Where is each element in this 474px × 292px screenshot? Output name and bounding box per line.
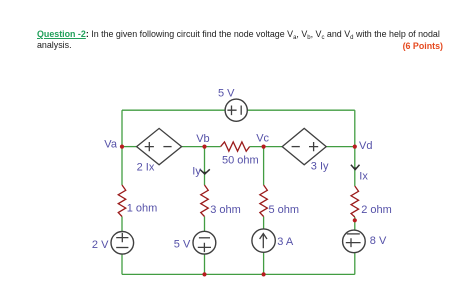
- label 3 ohm: [210, 204, 241, 216]
- svg-text:3 Iy: 3 Iy: [311, 161, 329, 173]
- voltage source 5V top: [225, 99, 247, 121]
- wire node row Vb to Vc: [250, 146, 283, 148]
- resistor 50 ohm: [221, 142, 250, 151]
- wire left vertical: [121, 110, 123, 274]
- current arrow Iy: [200, 169, 210, 174]
- resistor 2 ohm: [351, 186, 359, 217]
- svg-text:50 ohm: 50 ohm: [222, 155, 259, 167]
- question title line 2: [37, 40, 72, 50]
- label 1 ohm: [127, 203, 158, 215]
- svg-text:8 V: 8 V: [370, 235, 387, 247]
- question title line 1: [37, 29, 440, 39]
- svg-text:Va: Va: [104, 138, 118, 150]
- node Vd: [353, 145, 357, 149]
- wire Vc branch vertical: [263, 147, 265, 275]
- resistor 5 ohm: [260, 185, 268, 217]
- svg-text:3 ohm: 3 ohm: [210, 204, 241, 216]
- label Vc: [256, 132, 269, 144]
- label Vb: [196, 133, 209, 145]
- svg-text:Iy: Iy: [192, 166, 201, 178]
- svg-text:2 Ix: 2 Ix: [137, 162, 155, 174]
- svg-text:1 ohm: 1 ohm: [127, 203, 158, 215]
- svg-text:Vb: Vb: [196, 133, 209, 145]
- svg-text:5 V: 5 V: [218, 87, 235, 99]
- node junction bottom Vc: [262, 272, 266, 276]
- label Iy: [192, 166, 201, 178]
- current arrow Ix: [351, 165, 360, 170]
- label 5 V top: [218, 87, 235, 99]
- svg-text:Vd: Vd: [359, 140, 372, 152]
- voltage source 8V: [343, 230, 366, 253]
- svg-text:2 V: 2 V: [92, 239, 109, 251]
- label Vd: [359, 140, 372, 152]
- label 5 V bottom: [174, 239, 191, 251]
- node Va: [120, 145, 124, 149]
- label 2 V: [92, 239, 109, 251]
- wire right vertical: [354, 110, 356, 274]
- node junction bottom Vb: [202, 272, 206, 276]
- svg-text:5 ohm: 5 ohm: [269, 204, 300, 216]
- label 3 A: [277, 236, 294, 248]
- dependent source 2Ix diamond: [137, 128, 182, 164]
- label 5 ohm: [269, 204, 300, 216]
- wire bottom: [122, 273, 355, 275]
- points label: [403, 41, 443, 51]
- label 3 Iy: [311, 161, 329, 173]
- wire top: [122, 109, 355, 111]
- svg-text:Ix: Ix: [359, 171, 368, 183]
- wire Vb branch vertical: [204, 147, 206, 275]
- node Vc: [262, 145, 266, 149]
- wire node row Vc to Vd: [326, 146, 355, 148]
- voltage source 2V: [111, 232, 134, 255]
- label 8 V: [370, 235, 387, 247]
- label 2 Ix: [137, 162, 155, 174]
- dependent source 3Iy diamond: [282, 128, 326, 164]
- svg-text:Vc: Vc: [256, 132, 269, 144]
- label Ix: [359, 171, 368, 183]
- resistor 1 ohm: [118, 185, 126, 217]
- resistor 3 ohm: [201, 185, 209, 217]
- svg-text:2 ohm: 2 ohm: [361, 204, 392, 216]
- current source 3A: [252, 229, 275, 252]
- node junction above 8V: [353, 218, 357, 222]
- label Va: [104, 138, 118, 150]
- node Vb: [202, 145, 206, 149]
- wire node row Va to Vb: [122, 146, 221, 148]
- svg-text:5 V: 5 V: [174, 239, 191, 251]
- svg-text:3 A: 3 A: [277, 236, 294, 248]
- label 2 ohm: [361, 204, 392, 216]
- voltage source 5V bottom: [193, 231, 216, 254]
- label 50 ohm: [222, 155, 259, 167]
